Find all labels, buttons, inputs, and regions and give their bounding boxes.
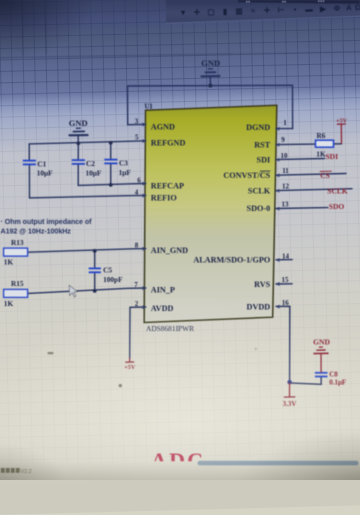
svg-text:■ ■ ■: ■ ■ ■ xyxy=(318,0,325,3)
svg-text:AGND: AGND xyxy=(151,123,175,132)
svg-text:Ω: Ω xyxy=(355,3,360,12)
svg-text:R6: R6 xyxy=(317,131,326,140)
svg-text:R13: R13 xyxy=(11,238,24,247)
svg-text:C5: C5 xyxy=(103,266,112,275)
svg-text:12: 12 xyxy=(282,183,290,191)
svg-text:1K: 1K xyxy=(316,149,326,158)
svg-text:10μF: 10μF xyxy=(86,168,102,177)
svg-text:SDI: SDI xyxy=(257,155,271,164)
svg-text:SCLK: SCLK xyxy=(248,186,271,195)
svg-text:15: 15 xyxy=(282,276,290,284)
svg-text:■ ■: ■ ■ xyxy=(282,0,286,3)
svg-text:ADS8681IPWR: ADS8681IPWR xyxy=(146,324,194,333)
svg-text:AIN_GND: AIN_GND xyxy=(151,246,188,255)
svg-text:C1: C1 xyxy=(37,159,46,168)
svg-text:AIN_P: AIN_P xyxy=(151,285,175,294)
svg-text:SDI: SDI xyxy=(326,152,339,161)
svg-text:100pF: 100pF xyxy=(103,275,123,284)
svg-text:+5V: +5V xyxy=(124,364,136,371)
svg-text:A192 @ 10Hz-100kHz: A192 @ 10Hz-100kHz xyxy=(1,227,72,235)
svg-text:11: 11 xyxy=(282,167,289,175)
svg-text:SDO-0: SDO-0 xyxy=(247,204,271,213)
svg-text:▼: ▼ xyxy=(179,8,187,17)
svg-text:CONVST/CS: CONVST/CS xyxy=(223,171,270,180)
svg-text:8: 8 xyxy=(135,242,139,250)
svg-text:· Ohm output impedance of: · Ohm output impedance of xyxy=(1,218,93,226)
svg-text:▥: ▥ xyxy=(235,6,242,15)
svg-text:C3: C3 xyxy=(119,159,128,168)
svg-text:GND: GND xyxy=(69,118,88,128)
svg-text:▢: ▢ xyxy=(207,7,214,16)
svg-text:+5V: +5V xyxy=(336,117,348,124)
svg-text:0.1μF: 0.1μF xyxy=(329,378,346,386)
svg-text:DGND: DGND xyxy=(246,123,270,132)
svg-text:REFGND: REFGND xyxy=(151,139,186,148)
svg-text:U1: U1 xyxy=(145,104,154,111)
svg-text:7: 7 xyxy=(134,281,138,289)
svg-text:4: 4 xyxy=(135,189,139,197)
svg-text:3.3V: 3.3V xyxy=(283,400,297,408)
svg-text:R15: R15 xyxy=(11,279,24,288)
svg-text:REFIO: REFIO xyxy=(151,193,177,202)
svg-text:✛: ✛ xyxy=(194,8,201,17)
svg-text:16: 16 xyxy=(282,299,290,307)
svg-text:CS: CS xyxy=(320,171,330,180)
svg-text:GND: GND xyxy=(313,338,330,347)
svg-text:SDO: SDO xyxy=(329,202,345,211)
svg-text:2: 2 xyxy=(135,300,139,308)
svg-text:C8: C8 xyxy=(329,370,338,378)
svg-text:RST: RST xyxy=(254,140,270,149)
svg-text:GND: GND xyxy=(201,58,220,68)
svg-text:C2: C2 xyxy=(86,159,95,168)
svg-text:⊢: ⊢ xyxy=(278,4,285,14)
svg-text:13: 13 xyxy=(282,200,290,208)
svg-text:10: 10 xyxy=(281,152,289,160)
svg-text:RVS: RVS xyxy=(254,280,271,289)
svg-text:ALARM/SDO-1/GPO: ALARM/SDO-1/GPO xyxy=(193,256,270,265)
svg-text:✛: ✛ xyxy=(264,6,271,15)
svg-text:V2.2: V2.2 xyxy=(21,469,32,475)
svg-text:AVDD: AVDD xyxy=(151,304,174,313)
svg-text:▬: ▬ xyxy=(305,5,313,14)
svg-text:14: 14 xyxy=(282,253,290,261)
svg-text:1: 1 xyxy=(283,119,287,127)
svg-text:▮: ▮ xyxy=(223,7,227,16)
svg-text:9: 9 xyxy=(281,136,285,144)
svg-text:ADC: ADC xyxy=(151,448,205,473)
svg-text:Φ: Φ xyxy=(334,4,340,13)
svg-text:REFCAP: REFCAP xyxy=(151,181,184,190)
svg-text:3: 3 xyxy=(135,118,139,126)
svg-text:A: A xyxy=(346,3,352,12)
svg-text:1K: 1K xyxy=(4,257,14,266)
svg-text:SCLK: SCLK xyxy=(327,187,348,196)
svg-text:6: 6 xyxy=(137,177,141,185)
svg-text:DVDD: DVDD xyxy=(247,302,271,311)
svg-text:■ ■: ■ ■ xyxy=(246,1,250,4)
svg-text:5: 5 xyxy=(135,134,139,142)
svg-text:10μF: 10μF xyxy=(37,169,53,178)
svg-text:1K: 1K xyxy=(4,299,14,308)
svg-text:1μF: 1μF xyxy=(119,168,132,177)
